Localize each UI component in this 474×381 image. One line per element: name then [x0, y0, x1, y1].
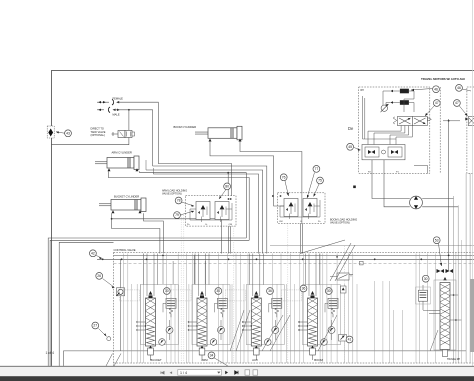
svg-text:CONTROL VALVE: CONTROL VALVE: [114, 248, 136, 252]
svg-text:1 of 4: 1 of 4: [46, 351, 55, 355]
wire female line right and down: [118, 102, 232, 196]
valve section BOOM: [282, 254, 341, 362]
travel relief valve left: [416, 285, 431, 310]
svg-text:De: De: [348, 126, 354, 131]
svg-text:36: 36: [268, 289, 272, 293]
svg-text:Cr: Cr: [205, 223, 208, 226]
arm cylinder port arrows: [108, 168, 111, 171]
junction square: [353, 186, 356, 189]
callout 34: [208, 352, 228, 366]
solenoid valve S2: [390, 100, 414, 105]
control valve dashed border top: [114, 251, 474, 253]
svg-text:47: 47: [455, 101, 459, 105]
callout 41: [346, 336, 353, 343]
toolbar page icon 1: [245, 370, 250, 375]
svg-text:BUCKET: BUCKET: [150, 358, 162, 362]
pilot bus line: [114, 254, 474, 256]
wire boom rod port: [210, 142, 284, 207]
callout 47 pair: [425, 100, 440, 116]
svg-text:ARM CYLINDER: ARM CYLINDER: [112, 151, 132, 155]
schematic page top border: [51, 70, 474, 72]
travel spool: [440, 277, 450, 357]
svg-text:80: 80: [225, 185, 229, 189]
svg-text:79: 79: [175, 213, 179, 217]
callout 75: [314, 177, 324, 196]
drain verticals between sections: [124, 254, 436, 364]
bus corner drops: [162, 255, 164, 284]
svg-text:30: 30: [327, 289, 331, 293]
arm LHV internal wires: [190, 198, 232, 222]
boom cylinder: [208, 128, 237, 139]
wire bucket rod port: [144, 213, 164, 253]
svg-text:46: 46: [457, 86, 461, 90]
bucket cylinder: [111, 200, 141, 211]
callout 36b: [300, 285, 307, 292]
arm load holding valve box: [186, 196, 237, 226]
svg-text:42: 42: [91, 251, 95, 255]
pilot gauge circle: [381, 104, 389, 112]
travel motor LH dashed box (partial): [467, 87, 474, 173]
callout 80: [219, 183, 231, 199]
svg-text:Cr: Cr: [300, 220, 303, 223]
boom LHV internal wires: [272, 195, 320, 219]
svg-text:36: 36: [302, 287, 306, 291]
wires through boom LHV down: [300, 223, 302, 253]
diagonal pilot lines: [300, 240, 355, 281]
svg-text:BOOM CYLINDER: BOOM CYLINDER: [174, 125, 197, 129]
svg-text:TRAVEL MOTORS W/ AUTO-SHI: TRAVEL MOTORS W/ AUTO-SHI: [421, 77, 465, 81]
travel motor circle: [410, 196, 423, 209]
svg-text:41: 41: [348, 338, 352, 342]
callout 42: [90, 250, 103, 259]
bottom dark bar: [0, 376, 474, 381]
schematic page left border: [51, 71, 53, 367]
svg-text:AUX: AUX: [252, 358, 258, 362]
wire arm head port: [108, 171, 249, 240]
svg-text:27: 27: [93, 324, 97, 328]
svg-text:CM: CM: [229, 224, 233, 226]
toolbar last page btn: [235, 371, 238, 374]
travel motor RH dashed box: [359, 87, 430, 173]
small comp: [341, 286, 347, 293]
toolbar page combo: [178, 370, 222, 376]
wires travel motor: [372, 160, 458, 207]
wire male line right and down: [114, 110, 153, 166]
partial verticals right-mid: [375, 281, 403, 363]
wires through arm LHV down: [228, 226, 230, 253]
scrollbar track: [472, 0, 474, 366]
travel counterbalance block: [362, 145, 405, 160]
travel section frame: [434, 280, 456, 350]
callout 43: [56, 130, 71, 137]
center line between motors: [448, 119, 450, 271]
lower-only drain verticals: [132, 284, 358, 363]
svg-text:26: 26: [97, 274, 101, 278]
svg-text:75: 75: [318, 179, 322, 183]
valve section AUX: [225, 254, 284, 362]
svg-text:FEMALE: FEMALE: [113, 96, 124, 100]
wire arm rod branch into LHV: [227, 172, 229, 174]
svg-text:MALE: MALE: [113, 113, 120, 117]
travel section links: [423, 294, 461, 321]
quick disconnect female: [97, 99, 119, 105]
svg-text:1 / 4: 1 / 4: [180, 371, 187, 375]
toolbar page icon 2: [253, 370, 258, 375]
check valve at border (optional): [47, 126, 54, 138]
svg-text:47: 47: [435, 101, 439, 105]
supply bus line: [97, 258, 474, 260]
bucket cylinder port arrows: [112, 210, 115, 213]
callout 46 pair: [411, 86, 439, 93]
callout 45: [347, 143, 361, 150]
svg-text:BOOM: BOOM: [314, 358, 323, 362]
travel directional valve RH: [393, 117, 431, 126]
arm cylinder: [107, 158, 134, 169]
wire inlet down: [120, 296, 122, 351]
svg-text:BUCKET CYLINDER: BUCKET CYLINDER: [114, 194, 139, 198]
arm LHV cartridge 1: [196, 202, 210, 220]
callout 77: [307, 166, 320, 199]
svg-text:77: 77: [315, 167, 319, 171]
callout 27: [92, 322, 111, 341]
bus junction dots: [102, 258, 104, 260]
boom LHV cartridge 2: [303, 199, 317, 217]
wire arm rod port: [140, 171, 247, 238]
svg-text:30: 30: [424, 277, 428, 281]
wire tank valve to left border: [51, 138, 129, 145]
boom cylinder port arrows: [209, 139, 212, 142]
toolbar top border: [0, 366, 474, 367]
callout 53: [433, 237, 442, 266]
svg-text:VALVE (OPTION): VALVE (OPTION): [330, 222, 350, 225]
wires valve to counterbalance nested: [363, 96, 413, 145]
diagonal lines lower: [230, 310, 438, 351]
boom LHV cartridge 1: [284, 199, 298, 217]
crossover relief valves: [437, 269, 454, 273]
arm LHV cartridge 2: [215, 202, 229, 220]
control valve dashed border bottom: [114, 362, 474, 364]
svg-text:VALVE (OPTION): VALVE (OPTION): [162, 193, 182, 196]
right side long verticals: [454, 173, 471, 363]
svg-text:34: 34: [210, 354, 214, 358]
dash-dot line: [114, 262, 474, 264]
toolbar prev btn: [170, 371, 173, 374]
callout 26: [96, 273, 115, 289]
relief comp right: [339, 335, 347, 342]
svg-text:78: 78: [177, 199, 181, 203]
svg-text:TRAVEL RH: TRAVEL RH: [447, 358, 460, 361]
control valve dashed border left: [113, 252, 115, 366]
boom load holding valve box: [278, 193, 326, 224]
wires solenoids: [383, 91, 414, 112]
wire return lines left: [48, 238, 249, 366]
wire bucket head port: [112, 213, 160, 253]
toolbar first page btn: [161, 371, 164, 374]
junction on male line: [128, 109, 130, 111]
svg-text:(OPTIONAL): (OPTIONAL): [91, 134, 105, 137]
svg-text:43: 43: [66, 131, 70, 135]
svg-text:RH: RH: [361, 90, 365, 92]
direct to tank valve V1: [112, 131, 135, 138]
wire bundle to control valve: [146, 160, 267, 254]
travel directional valve LH partial: [443, 117, 474, 126]
svg-text:46: 46: [434, 87, 438, 91]
inlet filter component: [117, 288, 125, 296]
valve section BUCKET: [120, 254, 179, 362]
svg-text:53: 53: [435, 238, 439, 242]
svg-text:CM: CM: [279, 221, 283, 223]
svg-text:30: 30: [165, 289, 169, 293]
wire boom head port: [240, 142, 302, 193]
callout 79: [174, 211, 194, 219]
valve section ARM: [171, 254, 230, 362]
svg-text:45: 45: [348, 145, 352, 149]
scrollbar thumb: [470, 279, 474, 352]
long grey line: [270, 245, 474, 247]
bus junction box: [360, 261, 364, 265]
dotted drain verticals: [181, 215, 344, 363]
callout 76: [280, 174, 289, 196]
toolbar next btn: [225, 371, 228, 374]
callout 30 travel: [422, 275, 429, 282]
boom lowering valve: [330, 273, 353, 280]
solenoid valve S1: [390, 89, 414, 94]
wire junction down to tank valve: [128, 110, 130, 130]
bottom-left diagonals: [106, 354, 113, 367]
auto-shift dashed divider: [439, 87, 441, 173]
quick disconnect male: [97, 107, 120, 113]
tank line bottom: [64, 351, 467, 366]
toolbar background: [0, 367, 474, 376]
callout 78: [175, 197, 194, 207]
svg-text:ARM: ARM: [201, 358, 208, 362]
svg-text:76: 76: [282, 175, 286, 179]
